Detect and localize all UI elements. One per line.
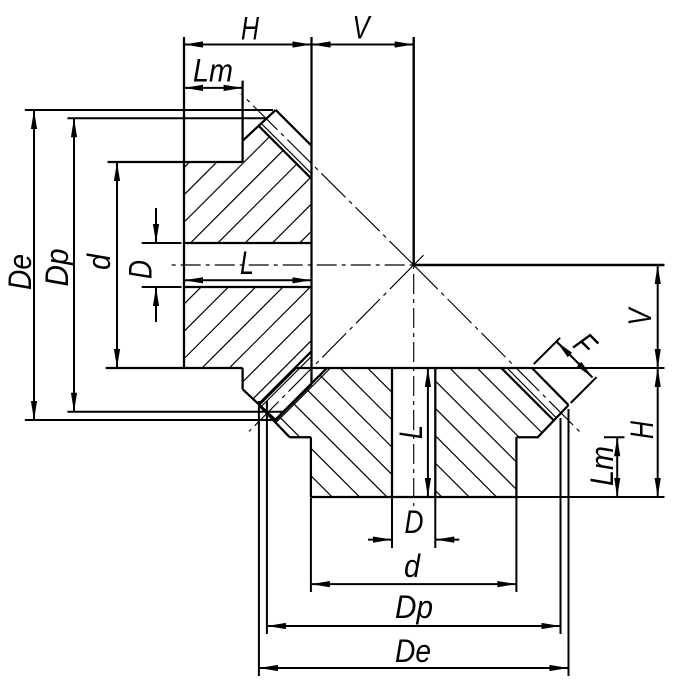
wire upper notch vertical top with Lm extension	[241, 81, 243, 162]
dimension d bottom	[311, 583, 517, 585]
wire pitch cone centerline mesh lower-left	[249, 265, 414, 432]
wire upper bore top	[184, 242, 312, 244]
wire lower clearance line left	[276, 368, 331, 423]
wire De extension bottom	[25, 419, 278, 421]
dimension Dp left	[73, 118, 75, 412]
dimension D left lower arrow	[155, 287, 157, 322]
dimension De left	[33, 110, 35, 420]
wire lower root line right	[501, 368, 554, 421]
wire D extension top	[142, 242, 182, 244]
wire F extension line 2	[571, 377, 597, 403]
wire horizontal centerline upper gear axis	[167, 264, 414, 266]
wire d extension bottom left	[310, 498, 312, 593]
wire Dp extension top	[67, 117, 267, 119]
dimension D bottom right arrow	[435, 539, 459, 541]
svg-text:Lm: Lm	[584, 446, 620, 486]
svg-text:L: L	[393, 425, 429, 439]
wire upper back cone face bottom	[243, 389, 276, 420]
wire upper notch top horizontal with d extension	[108, 161, 243, 163]
wire upper gear left face with H extension	[183, 37, 185, 368]
wire De extension bottom right	[568, 409, 570, 676]
wire upper gear right face with V extension	[310, 37, 312, 384]
svg-text:D: D	[405, 504, 424, 540]
wire upper root line top	[259, 127, 311, 179]
wire lower left notch vertical	[310, 437, 312, 497]
dimension D left upper arrow	[155, 208, 157, 243]
wire vertical centerline lower gear axis	[413, 265, 415, 506]
wire F extension line 1	[534, 338, 560, 364]
wire Dp extension bottom left	[266, 401, 268, 634]
svg-text:V: V	[622, 306, 658, 325]
svg-text:d: d	[81, 253, 117, 270]
wire D extension bottom	[142, 286, 182, 288]
svg-text:L: L	[240, 245, 254, 281]
wire lower bore right	[434, 368, 436, 497]
dimension De bottom	[259, 667, 569, 669]
wire upper clearance line bottom	[262, 356, 312, 406]
wire D extension bottom left	[391, 498, 393, 548]
dimension F	[557, 342, 593, 378]
wire upper bore bottom	[184, 286, 312, 288]
wire lower addendum line left	[259, 368, 296, 405]
dimension H top	[184, 44, 312, 46]
wire De extension bottom left	[258, 401, 260, 676]
dimension H right	[657, 368, 659, 497]
wire pitch cone centerline lower-right	[414, 265, 583, 435]
dimension d left	[116, 162, 118, 368]
wire lower right notch vertical	[515, 437, 517, 497]
dimension D bottom left arrow	[368, 539, 392, 541]
wire pitch cone centerline upper-left	[241, 94, 414, 265]
svg-text:De: De	[2, 254, 38, 290]
wire D extension bottom right	[434, 498, 436, 548]
wire upper back cone face top	[243, 110, 276, 141]
wire V-H extension right at top face	[533, 367, 665, 369]
wire lower back cone face right	[538, 405, 569, 437]
svg-text:De: De	[395, 633, 431, 669]
dimension Lm right	[616, 437, 618, 497]
svg-text:Lm: Lm	[193, 53, 233, 89]
svg-text:d: d	[404, 548, 421, 584]
wire lower left notch horizontal	[290, 436, 311, 438]
svg-text:Dp: Dp	[395, 589, 433, 625]
wire d extension bottom right	[515, 498, 517, 593]
wire lower back cone face left	[259, 405, 290, 437]
wire upper notch vertical bottom	[241, 368, 243, 389]
wire Dp extension bottom	[67, 411, 285, 413]
wire Dp extension bottom right	[560, 418, 562, 634]
wire upper notch bottom horizontal with d extension	[106, 367, 243, 369]
wire lower addendum line right	[532, 368, 569, 405]
svg-text:V: V	[353, 10, 372, 46]
wire lower gear top face	[296, 367, 533, 369]
wire De extension top	[25, 109, 273, 111]
svg-text:H: H	[624, 420, 660, 439]
dimension L lower bore	[427, 368, 429, 497]
dimension V right	[657, 265, 659, 368]
svg-text:D: D	[123, 260, 159, 279]
svg-text:H: H	[241, 11, 260, 47]
wire lower bore left	[391, 368, 393, 497]
dimension Lm top	[184, 87, 243, 89]
svg-text:Dp: Dp	[39, 249, 75, 287]
wire upper clearance line top	[262, 124, 312, 174]
wire upper addendum line top	[276, 110, 312, 146]
dimension Dp bottom	[267, 625, 561, 627]
wire apex extension line vertical	[413, 37, 415, 265]
wire lower gear bottom face	[311, 496, 517, 498]
wire H extension right at bottom face	[516, 496, 664, 498]
wire lower clearance line right	[507, 368, 556, 418]
wire upper addendum line bottom	[276, 384, 312, 420]
wire upper root line bottom	[259, 351, 311, 403]
wire apex extension line right	[414, 264, 665, 266]
wire Lm extension right	[604, 436, 625, 438]
wire lower right notch horizontal	[516, 436, 538, 438]
wire lower root line left	[274, 368, 327, 421]
dimension V top	[312, 44, 414, 46]
dimension L upper bore	[184, 279, 312, 281]
wire pitch cone centerline stub upper-right	[414, 255, 424, 265]
